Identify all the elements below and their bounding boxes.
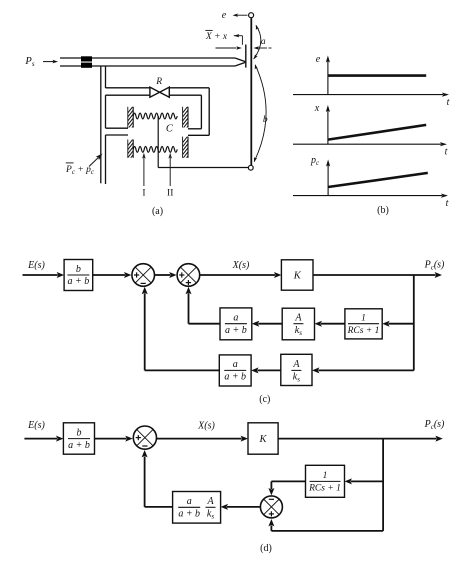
svg-text:e: e	[316, 54, 321, 65]
svg-text:RCs + 1: RCs + 1	[308, 484, 341, 494]
svg-text:a + b: a + b	[68, 440, 90, 451]
svg-text:a: a	[187, 496, 192, 507]
svg-text:X(s): X(s)	[232, 260, 250, 271]
svg-text:E(s): E(s)	[27, 260, 45, 271]
svg-text:(c): (c)	[259, 394, 270, 405]
svg-text:1: 1	[361, 314, 366, 324]
svg-text:(b): (b)	[377, 205, 389, 216]
svg-text:Pc(s): Pc(s)	[424, 419, 445, 431]
svg-text:b: b	[76, 264, 81, 275]
svg-text:K: K	[293, 271, 302, 282]
svg-text:RCs + 1: RCs + 1	[347, 326, 380, 336]
svg-text:X(s): X(s)	[197, 421, 215, 432]
svg-text:t: t	[447, 97, 450, 108]
svg-text:C: C	[166, 124, 174, 135]
svg-text:a + b: a + b	[68, 276, 90, 287]
svg-text:t: t	[445, 147, 448, 158]
svg-text:t: t	[446, 198, 449, 209]
svg-text:II: II	[167, 189, 173, 199]
svg-text:a + b: a + b	[178, 509, 200, 520]
svg-text:(a): (a)	[152, 206, 163, 217]
svg-text:Pc(s): Pc(s)	[424, 260, 445, 272]
svg-text:K: K	[258, 434, 267, 445]
svg-text:b: b	[77, 427, 82, 438]
svg-text:b: b	[263, 115, 268, 125]
svg-text:A: A	[294, 313, 302, 324]
svg-text:a: a	[233, 359, 238, 370]
svg-text:R: R	[155, 77, 162, 87]
svg-text:x: x	[314, 103, 320, 114]
svg-text:a + b: a + b	[224, 372, 246, 383]
svg-text:a: a	[233, 313, 238, 324]
svg-text:A: A	[292, 359, 300, 370]
svg-text:X + x: X + x	[205, 32, 228, 42]
svg-text:(d): (d)	[260, 543, 272, 554]
svg-text:a + b: a + b	[225, 325, 247, 336]
svg-text:A: A	[206, 496, 214, 507]
svg-text:a: a	[261, 37, 266, 47]
svg-text:1: 1	[323, 471, 328, 481]
svg-text:e: e	[222, 10, 227, 21]
svg-text:E(s): E(s)	[27, 420, 45, 431]
svg-text:I: I	[142, 189, 145, 199]
svg-text:Pc + pc: Pc + pc	[65, 165, 95, 176]
